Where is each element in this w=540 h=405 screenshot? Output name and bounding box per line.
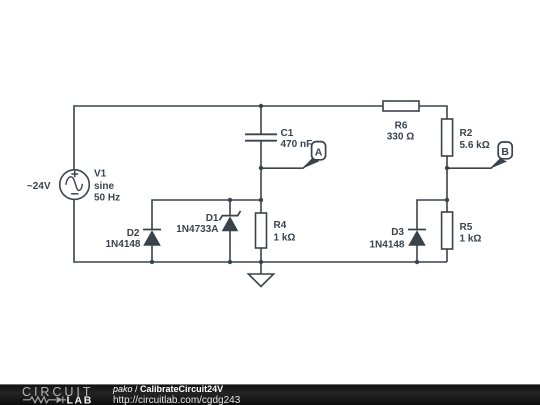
svg-text:1N4733A: 1N4733A <box>176 224 218 235</box>
footer title text <box>112 384 223 394</box>
svg-text:1N4148: 1N4148 <box>105 239 140 250</box>
label V1 name <box>94 169 120 204</box>
svg-text:V1: V1 <box>94 169 107 180</box>
svg-text:A: A <box>315 146 323 158</box>
svg-text:http://circuitlab.com/cgdg243: http://circuitlab.com/cgdg243 <box>113 395 241 405</box>
node junction C1 top <box>259 104 263 108</box>
svg-text:R5: R5 <box>460 222 473 233</box>
resistor R5 <box>442 212 453 249</box>
svg-text:R4: R4 <box>274 220 287 231</box>
node junction D1 top <box>228 198 232 202</box>
svg-text:D3: D3 <box>391 227 404 238</box>
wire node B lead <box>447 159 501 168</box>
diode D2 <box>143 230 161 246</box>
svg-text:B: B <box>501 146 509 158</box>
svg-text:pako / CalibrateCircuit24V: pako / CalibrateCircuit24V <box>112 384 223 394</box>
label C1 <box>281 128 313 150</box>
wire R2 bottom to node B junction <box>446 156 448 168</box>
svg-text:330 Ω: 330 Ω <box>387 132 414 143</box>
label R6 <box>387 121 414 143</box>
svg-text:D1: D1 <box>206 213 219 224</box>
resistor R2 <box>442 119 453 156</box>
svg-text:50 Hz: 50 Hz <box>94 193 120 204</box>
wire R6 right to R2 top <box>419 106 447 119</box>
svg-text:1 kΩ: 1 kΩ <box>274 233 296 244</box>
wire C1 top stub <box>260 106 262 134</box>
svg-text:~24V: ~24V <box>27 181 51 192</box>
zener diode D1 <box>220 211 241 231</box>
CircuitLab logo <box>22 385 93 405</box>
wire V1 bottom to bottom rail <box>74 200 447 263</box>
wire node A junction down to R4 top <box>260 168 262 213</box>
svg-text:470 nF: 470 nF <box>281 139 313 150</box>
resistor R6 <box>383 101 419 111</box>
svg-text:D2: D2 <box>127 228 140 239</box>
wire node B junction down to R5 branch junction <box>446 168 448 200</box>
resistor R4 <box>256 213 267 248</box>
svg-text:5.6 kΩ: 5.6 kΩ <box>460 140 490 151</box>
wire D1 top stub <box>229 200 231 216</box>
wire branch to D3 <box>417 200 447 230</box>
wire R4 bottom to bottom rail <box>260 248 262 262</box>
node B flag <box>490 142 512 169</box>
wire R5 top stub <box>446 200 448 212</box>
label R2 <box>460 128 490 151</box>
svg-text:LAB: LAB <box>67 394 93 405</box>
label D2 <box>105 228 140 250</box>
label D1 <box>176 213 219 235</box>
label D3 <box>369 227 404 250</box>
svg-text:C1: C1 <box>281 128 294 139</box>
wire C1 bottom to node A junction <box>260 141 262 168</box>
voltage source V1 <box>60 170 90 200</box>
wire D1 bottom <box>229 231 231 263</box>
wire D2 bottom <box>151 246 153 263</box>
node junction left branch <box>259 198 263 202</box>
node junction ground <box>259 260 263 264</box>
node junction D3 bottom <box>415 260 419 264</box>
svg-text:1 kΩ: 1 kΩ <box>460 234 482 245</box>
capacitor C1 <box>245 134 277 140</box>
svg-text:1N4148: 1N4148 <box>369 239 404 250</box>
wire ground stub <box>260 262 262 274</box>
node junction D3 branch <box>445 198 449 202</box>
node A flag <box>302 142 326 169</box>
node junction B <box>445 166 449 170</box>
wire V1 top to top rail corner <box>74 106 383 170</box>
wire R5 bottom stub <box>446 249 448 262</box>
footer url text <box>113 395 241 405</box>
label R5 <box>460 222 482 245</box>
label R4 <box>274 220 296 243</box>
wire D3 bottom <box>416 246 418 263</box>
diode D3 <box>408 230 426 246</box>
ground <box>248 274 273 287</box>
label V1 value ~24V <box>27 181 51 192</box>
node junction D2 bottom <box>150 260 154 264</box>
svg-text:sine: sine <box>94 181 114 192</box>
svg-text:R6: R6 <box>395 121 408 132</box>
node junction A <box>259 166 263 170</box>
wire node A lead <box>261 159 314 169</box>
footer bar <box>0 384 540 405</box>
svg-text:R2: R2 <box>460 128 473 139</box>
node junction D1 bottom <box>228 260 232 264</box>
wire left branch to D2 <box>152 200 261 230</box>
